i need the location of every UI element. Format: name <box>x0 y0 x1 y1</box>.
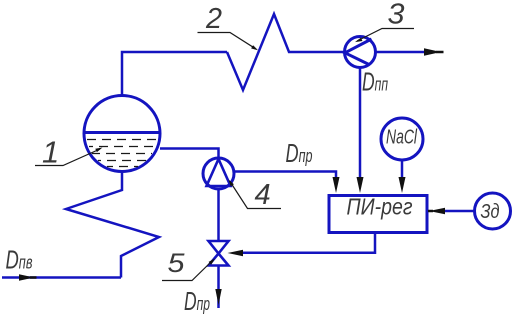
drum 1 (boiler drum) <box>84 96 160 172</box>
wire blowdown below valve <box>217 266 220 308</box>
arrow steam out <box>424 48 444 56</box>
label 4 with leader <box>229 179 282 211</box>
controller PI-reg block U1 <box>329 194 427 233</box>
svg-text:Зд: Зд <box>481 201 500 223</box>
label 3 with leader <box>355 0 414 42</box>
wire steam outlet <box>376 51 426 54</box>
arrow into valve <box>228 250 244 256</box>
arrow into controller (Zd) <box>428 208 445 214</box>
arrow feedwater <box>19 274 37 281</box>
superheater coil 2 (zigzag) <box>227 14 345 90</box>
svg-text:NaCl: NaCl <box>386 127 417 149</box>
wire steam line from drum top to superheater <box>122 52 227 97</box>
svg-text:Dпв: Dпв <box>6 245 33 275</box>
wire drum to pump 4 <box>160 149 219 159</box>
svg-text:4: 4 <box>255 179 271 211</box>
label 1 with leader <box>35 135 103 170</box>
svg-text:1: 1 <box>42 135 59 170</box>
flow sensor 3 (circle with chords) <box>345 37 376 68</box>
arrow into controller (Dpp) <box>357 177 364 193</box>
pump 4 (circle with triangle) <box>203 158 234 189</box>
wire controller output to valve 5 <box>243 233 375 253</box>
svg-text:Dпп: Dпп <box>362 67 388 97</box>
wire NaCl to controller <box>401 160 404 180</box>
svg-text:3: 3 <box>388 0 405 31</box>
svg-text:Dпр: Dпр <box>184 286 210 316</box>
arrow blowdown Dpr down <box>215 289 221 305</box>
water hatching in drum <box>87 140 157 167</box>
wire feedwater Dpv line <box>2 276 121 279</box>
setpoint Zd (circle) <box>475 193 511 229</box>
node Dpp sense line from sensor 3 to PI controller <box>359 68 362 183</box>
valve 5 (bowtie) <box>209 241 229 266</box>
svg-text:ПИ-рег: ПИ-рег <box>347 194 413 220</box>
riser/downcomer coil below drum (zigzag) <box>66 171 159 278</box>
svg-text:5: 5 <box>168 248 186 278</box>
svg-text:Dпр: Dпр <box>286 138 313 168</box>
wire Zd to controller <box>443 210 475 213</box>
svg-text:2: 2 <box>205 3 222 35</box>
wire pump outlet Dpr to controller <box>234 172 336 181</box>
sensor NaCl (circle) <box>381 118 423 160</box>
arrow into controller (Dpr) <box>333 177 340 193</box>
label 5 with leader <box>162 248 215 281</box>
arrow into controller (NaCl) <box>399 177 406 193</box>
label 2 with leader <box>198 3 259 50</box>
wire pump to valve <box>217 189 220 241</box>
